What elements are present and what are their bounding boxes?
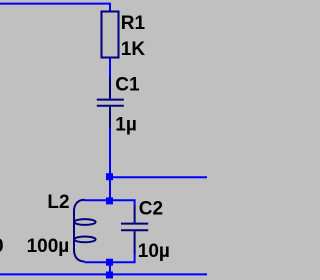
capacitor C1 top lead [109,77,111,99]
resistor R1 body [102,12,119,58]
node D junction [106,272,113,279]
capacitor C2 plates [121,224,148,231]
svg-text:1K: 1K [121,39,146,60]
wire node B to L2 top [84,199,110,201]
svg-text:0: 0 [0,236,4,257]
wire top horizontal into R1 [0,4,110,11]
capacitor C1 plates [97,100,124,106]
svg-text:10µ: 10µ [138,241,170,262]
svg-text:L2: L2 [47,192,69,213]
node A junction [106,173,113,180]
wire R1 bottom to C1 [109,58,111,77]
svg-text:100µ: 100µ [27,236,70,257]
svg-text:R1: R1 [121,13,146,34]
capacitor C2 bottom lead [134,231,136,254]
wire node A to node B [109,177,111,201]
svg-text:C1: C1 [115,75,140,96]
wire node B to C2 top [110,200,135,205]
node C junction [106,259,113,266]
node B junction [106,197,113,204]
capacitor C2 top lead [134,206,136,223]
inductor L2 loop 1 [74,219,95,225]
inductor L2 coil spine [74,200,85,262]
wire C2 bottom to tank bottom [85,254,135,262]
inductor L2 loop 2 [74,237,95,243]
wire node A to right edge [110,176,207,178]
capacitor C1 bottom lead [109,107,111,128]
svg-text:C2: C2 [139,199,163,220]
wire bottom horizontal full width [0,273,207,275]
wire node C to node D [109,262,111,274]
wire C1 to node A [109,128,111,177]
svg-text:1µ: 1µ [115,114,137,135]
